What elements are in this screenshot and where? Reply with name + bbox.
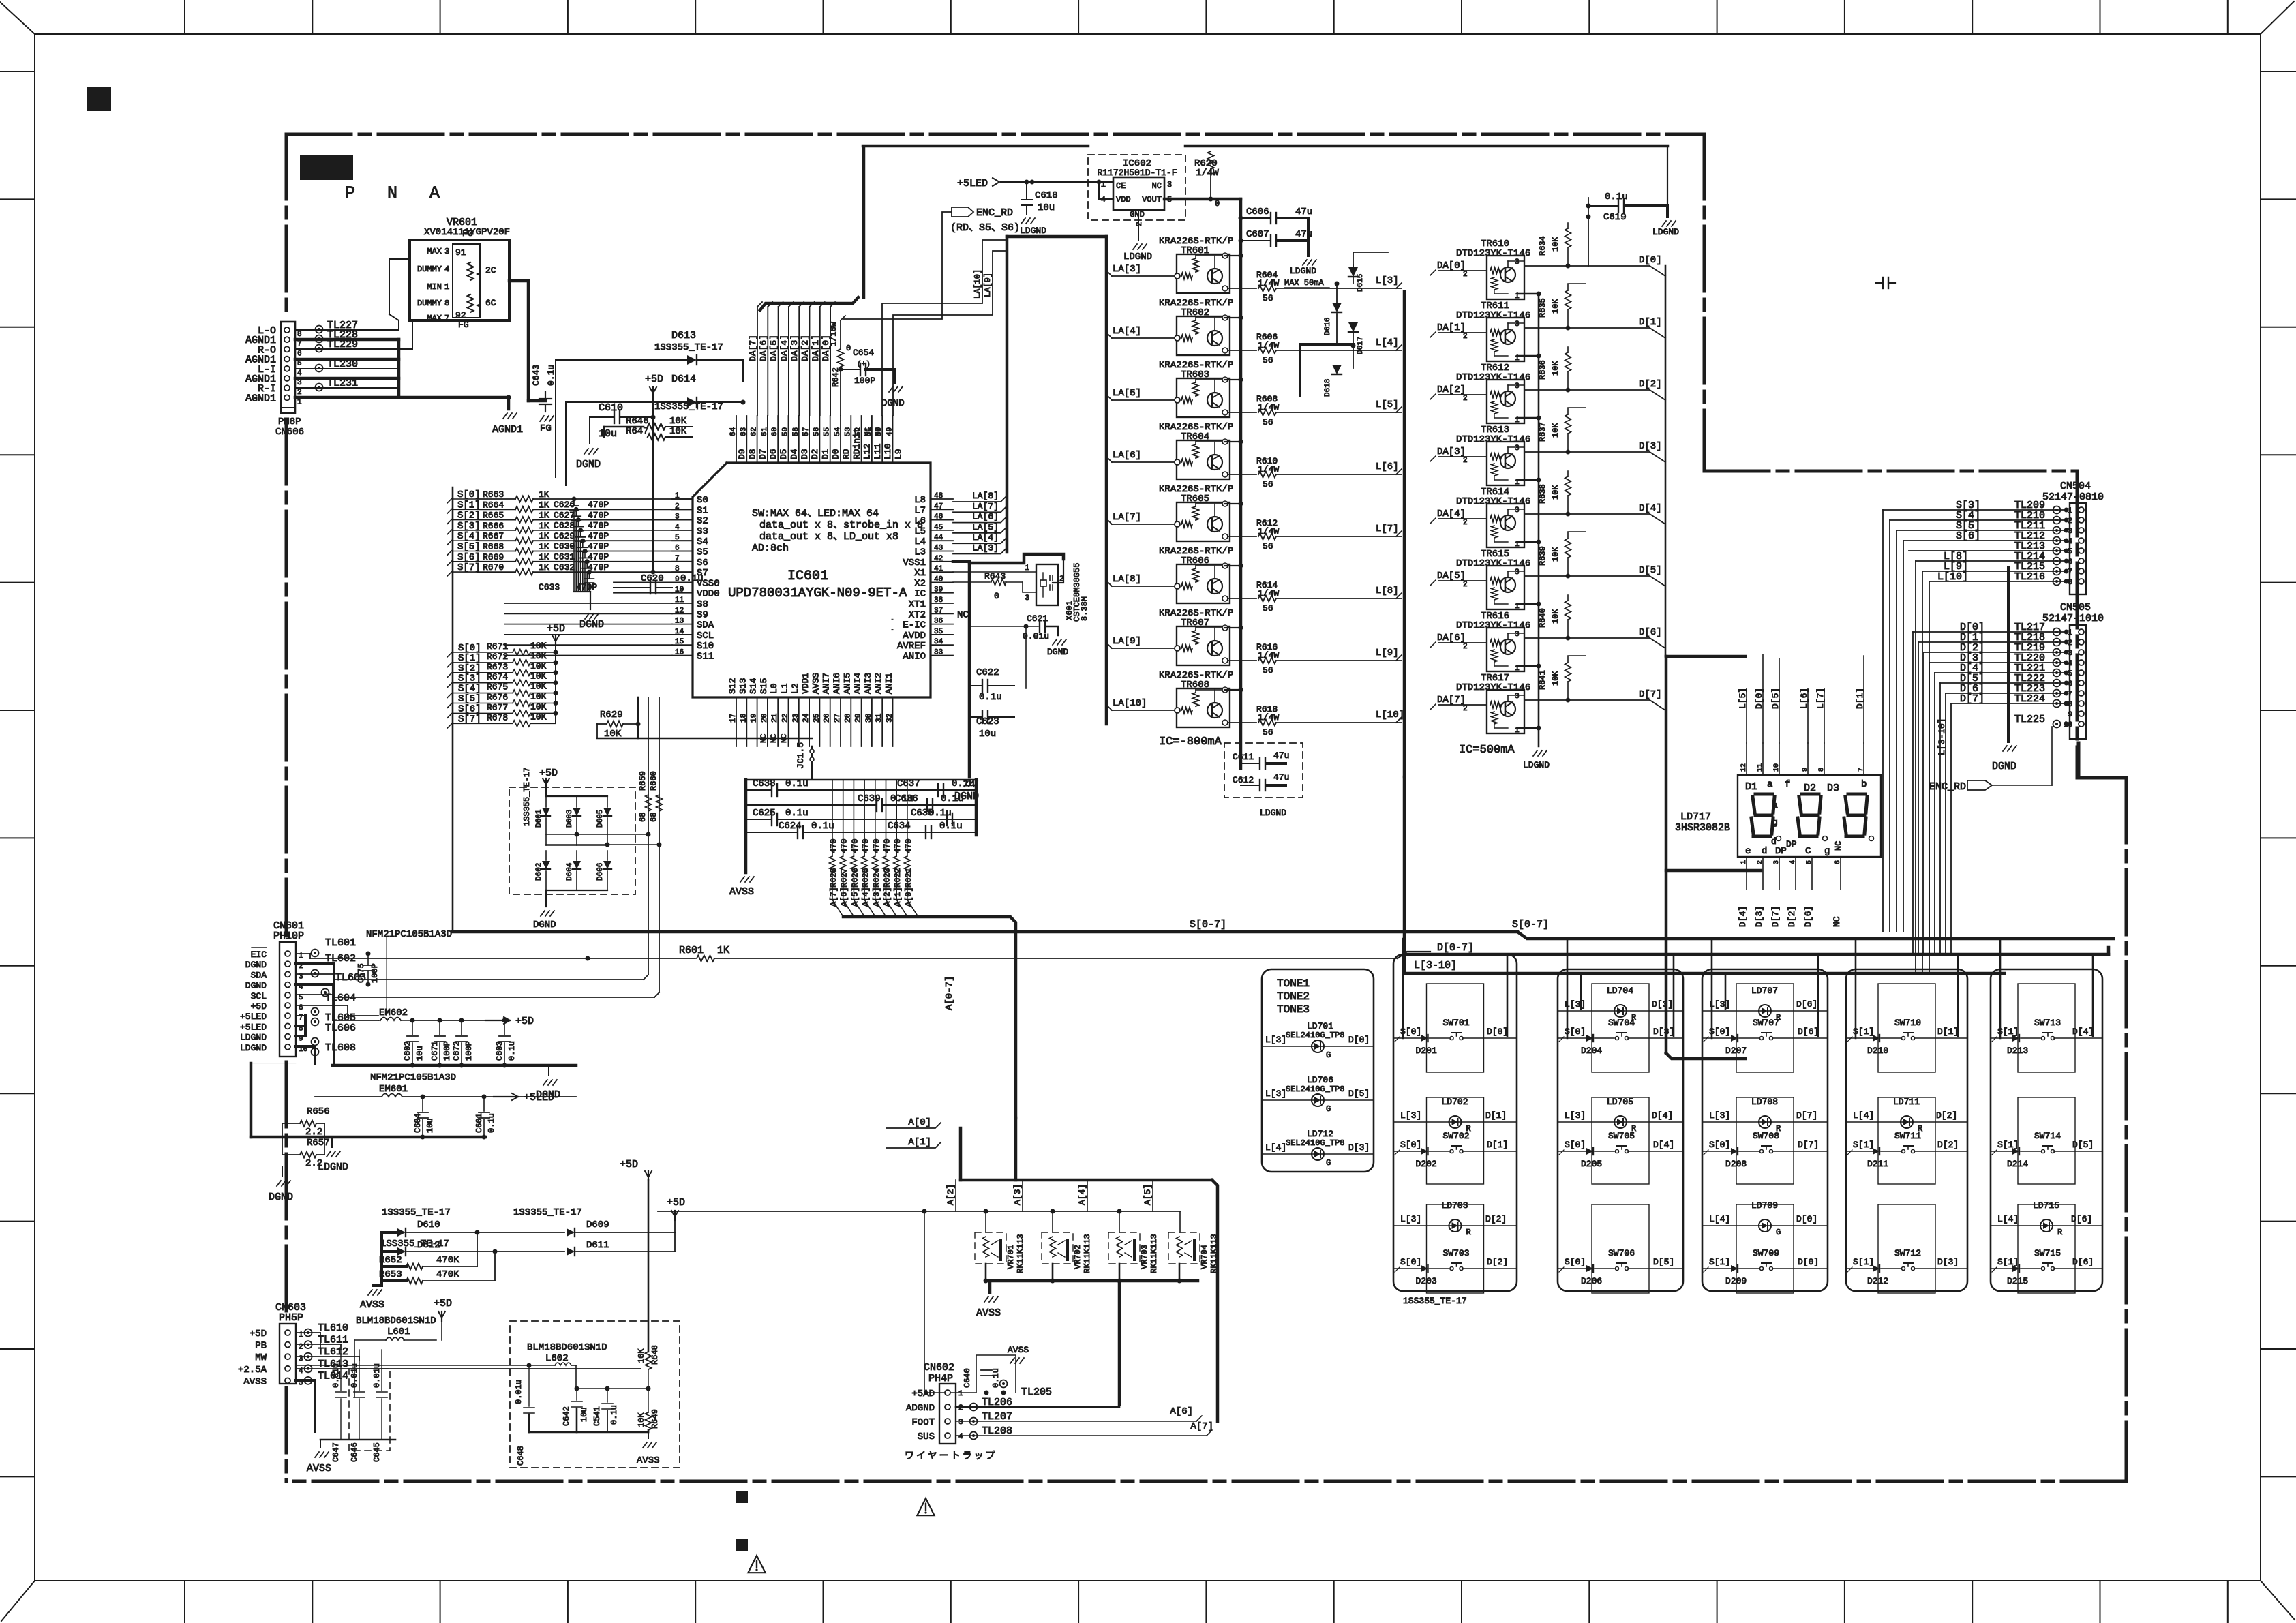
svg-text:7: 7: [2068, 691, 2072, 699]
svg-text:L[4]: L[4]: [1376, 337, 1399, 348]
svg-text:DA[6]: DA[6]: [758, 335, 768, 361]
svg-text:S[6]: S[6]: [1956, 530, 1980, 542]
svg-text:C619: C619: [1603, 212, 1627, 223]
svg-text:SW709: SW709: [1753, 1248, 1779, 1258]
svg-text:21: 21: [771, 713, 779, 723]
svg-text:D[2]: D[2]: [1787, 906, 1797, 927]
svg-text:24: 24: [802, 713, 811, 723]
svg-text:3: 3: [1025, 594, 1029, 603]
svg-text:DUMMY: DUMMY: [417, 264, 442, 274]
svg-text:D[4]: D[4]: [1639, 503, 1662, 514]
svg-text:DTD123YK-T146: DTD123YK-T146: [1456, 434, 1530, 445]
svg-text:18: 18: [740, 714, 748, 723]
svg-text:VDD: VDD: [1116, 195, 1131, 204]
svg-text:D[7]: D[7]: [1796, 1110, 1817, 1121]
svg-text:A[6]: A[6]: [840, 887, 849, 907]
svg-text:D213: D213: [2007, 1046, 2028, 1056]
svg-text:D606: D606: [596, 863, 605, 881]
svg-text:D[0]: D[0]: [1798, 1257, 1819, 1267]
svg-text:1SS355_TE-17: 1SS355_TE-17: [382, 1207, 451, 1218]
svg-text:0.1u: 0.1u: [487, 1113, 496, 1133]
svg-text:2: 2: [1136, 222, 1144, 226]
svg-text:DTD123YK-T146: DTD123YK-T146: [1456, 248, 1530, 259]
svg-text:NFM21PC105B1A3D: NFM21PC105B1A3D: [370, 1072, 456, 1083]
svg-text:9: 9: [1802, 768, 1809, 772]
svg-text:3: 3: [1515, 568, 1520, 577]
svg-text:TL610: TL610: [318, 1322, 348, 1334]
svg-text:D8: D8: [747, 449, 757, 459]
svg-text:R628: R628: [829, 868, 839, 888]
svg-text:56: 56: [1263, 665, 1273, 676]
svg-text:D609: D609: [586, 1219, 609, 1230]
svg-text:8: 8: [444, 299, 449, 308]
svg-text:DA[7]: DA[7]: [1437, 695, 1466, 706]
svg-text:S14: S14: [749, 678, 759, 694]
svg-text:SW702: SW702: [1443, 1131, 1470, 1141]
svg-text:S[0-7]: S[0-7]: [1190, 919, 1226, 930]
svg-text:2: 2: [1463, 271, 1468, 279]
svg-text:IC: IC: [914, 589, 926, 600]
svg-text:LD701: LD701: [1307, 1021, 1333, 1031]
svg-text:1SS355_TE-17: 1SS355_TE-17: [380, 1239, 449, 1249]
svg-text:LA[4]: LA[4]: [972, 532, 999, 543]
svg-text:NC: NC: [1152, 181, 1162, 191]
svg-text:DUMMY: DUMMY: [417, 299, 442, 308]
svg-text:0.1u: 0.1u: [811, 821, 834, 832]
svg-text:DA[5]: DA[5]: [1437, 571, 1466, 581]
svg-text:13: 13: [675, 618, 684, 626]
svg-text:27: 27: [834, 714, 842, 723]
svg-text:S8: S8: [697, 599, 708, 610]
svg-text:2: 2: [297, 389, 302, 397]
svg-text:3: 3: [1515, 693, 1520, 701]
svg-text:LD717: LD717: [1680, 811, 1711, 823]
svg-text:ANI3: ANI3: [863, 673, 873, 694]
svg-text:data_out x 8、strobe_in x 8: data_out x 8、strobe_in x 8: [759, 519, 923, 531]
svg-text:C640: C640: [963, 1368, 972, 1388]
svg-text:SEL2410G_TP8: SEL2410G_TP8: [1286, 1084, 1344, 1094]
svg-text:CE: CE: [1116, 181, 1126, 191]
svg-text:0: 0: [1215, 199, 1220, 209]
svg-text:A[0-7]: A[0-7]: [944, 976, 955, 1010]
svg-text:10u: 10u: [1038, 202, 1055, 213]
svg-text:10u: 10u: [425, 1118, 435, 1133]
svg-text:9: 9: [2068, 711, 2072, 719]
svg-text:D208: D208: [1725, 1159, 1747, 1169]
svg-text:LA[6]: LA[6]: [972, 512, 999, 522]
svg-text:10K: 10K: [530, 701, 547, 712]
svg-text:DTD123YK-T146: DTD123YK-T146: [1456, 682, 1530, 693]
svg-text:3: 3: [1515, 258, 1520, 267]
svg-text:R666: R666: [483, 521, 504, 531]
svg-text:S11: S11: [697, 652, 714, 663]
svg-text:D[7]: D[7]: [1770, 906, 1781, 927]
svg-text:D210: D210: [1867, 1046, 1888, 1056]
svg-text:CN504: CN504: [2060, 481, 2091, 492]
svg-text:3: 3: [2068, 650, 2072, 658]
svg-text:A[2]: A[2]: [946, 1184, 956, 1205]
svg-text:1K: 1K: [539, 489, 549, 500]
svg-text:D[1]: D[1]: [1487, 1140, 1508, 1150]
svg-text:100P: 100P: [442, 1041, 452, 1061]
svg-text:30: 30: [865, 714, 873, 723]
svg-text:R659: R659: [638, 771, 648, 791]
svg-text:DGND: DGND: [245, 981, 267, 991]
svg-text:C632: C632: [554, 562, 575, 573]
svg-text:2C: 2C: [485, 265, 496, 275]
svg-text:10: 10: [1773, 763, 1781, 772]
svg-text:58: 58: [792, 427, 800, 436]
svg-text:VR701: VR701: [1006, 1245, 1016, 1269]
svg-text:D6: D6: [768, 449, 779, 459]
svg-text:SW707: SW707: [1753, 1018, 1779, 1028]
svg-text:R667: R667: [483, 531, 504, 541]
svg-text:470P: 470P: [576, 582, 597, 592]
svg-text:2: 2: [1463, 519, 1468, 527]
svg-text:SCL: SCL: [697, 631, 714, 641]
svg-text:LD704: LD704: [1607, 986, 1633, 996]
svg-text:G: G: [1326, 1050, 1331, 1060]
svg-text:TONE1: TONE1: [1277, 977, 1310, 990]
svg-text:56: 56: [1263, 293, 1273, 303]
svg-text:0: 0: [846, 344, 851, 353]
svg-text:D[4]: D[4]: [1652, 1110, 1673, 1121]
svg-text:L6: L6: [914, 516, 926, 527]
svg-text:LD709: LD709: [1751, 1200, 1778, 1211]
svg-text:A[7]: A[7]: [1190, 1421, 1213, 1432]
svg-text:D618: D618: [1324, 379, 1332, 397]
svg-text:470P: 470P: [588, 531, 609, 541]
svg-text:C646: C646: [350, 1442, 359, 1462]
svg-text:470: 470: [861, 838, 871, 853]
svg-text:DA[7]: DA[7]: [748, 335, 758, 361]
svg-text:DGND: DGND: [533, 920, 556, 930]
svg-text:R622: R622: [893, 868, 903, 888]
svg-text:D4: D4: [789, 449, 800, 459]
svg-text:IC=500mA: IC=500mA: [1459, 744, 1515, 757]
svg-text:LD705: LD705: [1607, 1097, 1633, 1107]
svg-text:49: 49: [886, 427, 894, 436]
svg-text:15: 15: [675, 638, 684, 646]
svg-text:CN505: CN505: [2060, 602, 2091, 613]
svg-text:D[2]: D[2]: [1936, 1110, 1957, 1121]
svg-text:R668: R668: [483, 542, 504, 552]
svg-text:g: g: [1772, 817, 1778, 828]
svg-text:61: 61: [761, 427, 769, 436]
svg-text:3: 3: [2068, 528, 2072, 536]
svg-text:D[7]: D[7]: [1960, 693, 1984, 705]
svg-text:b: b: [1861, 779, 1867, 790]
svg-text:X1: X1: [914, 568, 926, 579]
svg-text:VDD1: VDD1: [800, 673, 811, 694]
svg-text:1SS355_TE-17: 1SS355_TE-17: [522, 768, 532, 826]
svg-text:59: 59: [782, 427, 790, 436]
svg-text:C601: C601: [474, 1113, 484, 1133]
svg-text:DGND: DGND: [269, 1192, 293, 1203]
svg-text:47u: 47u: [1273, 750, 1289, 761]
svg-text:A[3]: A[3]: [1012, 1184, 1023, 1205]
svg-text:6: 6: [2068, 558, 2072, 566]
svg-text:CN602: CN602: [924, 1362, 954, 1374]
svg-text:DP: DP: [1775, 846, 1787, 857]
svg-text:LA[7]: LA[7]: [1113, 512, 1141, 523]
svg-text:64: 64: [729, 427, 738, 436]
svg-text:LA[3]: LA[3]: [972, 543, 999, 553]
svg-text:+2.5A: +2.5A: [238, 1365, 267, 1376]
svg-text:S[0]: S[0]: [1400, 1140, 1421, 1150]
svg-text:D202: D202: [1416, 1159, 1437, 1169]
svg-text:L[3]: L[3]: [1265, 1035, 1286, 1045]
svg-text:DA[4]: DA[4]: [779, 335, 789, 361]
svg-text:R647: R647: [626, 426, 649, 437]
svg-text:data_out x 8、LD_out x8: data_out x 8、LD_out x8: [759, 531, 898, 543]
svg-text:IC601: IC601: [787, 568, 828, 584]
svg-text:C612: C612: [1233, 775, 1254, 785]
svg-text:UPD780031AYGK-N09-9ET-A: UPD780031AYGK-N09-9ET-A: [728, 586, 907, 601]
svg-text:60: 60: [771, 427, 779, 436]
svg-text:S10: S10: [697, 641, 714, 652]
svg-text:+5LED: +5LED: [957, 178, 988, 189]
svg-text:D1: D1: [1745, 781, 1757, 793]
svg-text:1: 1: [297, 398, 302, 406]
svg-text:S6: S6: [697, 558, 708, 568]
svg-text:46: 46: [934, 513, 943, 521]
svg-text:3: 3: [1515, 631, 1520, 639]
svg-text:R624: R624: [872, 868, 881, 888]
svg-text:470: 470: [883, 838, 892, 853]
svg-text:6C: 6C: [485, 298, 496, 308]
svg-text:1: 1: [444, 282, 449, 292]
svg-text:LDGND: LDGND: [240, 1033, 267, 1043]
svg-text:JC1.5: JC1.5: [796, 742, 806, 769]
svg-text:470P: 470P: [588, 510, 609, 520]
svg-text:VR704: VR704: [1200, 1245, 1209, 1269]
svg-text:D[2]: D[2]: [1639, 379, 1662, 390]
svg-text:4: 4: [444, 264, 449, 274]
svg-text:PH5P: PH5P: [279, 1312, 303, 1324]
svg-text:3: 3: [297, 379, 302, 387]
svg-text:R626: R626: [850, 868, 860, 888]
svg-text:D616: D616: [1324, 318, 1332, 335]
svg-text:L4: L4: [914, 536, 926, 547]
svg-text:DA[3]: DA[3]: [1437, 446, 1466, 457]
svg-text:0.01u: 0.01u: [372, 1363, 382, 1388]
svg-text:S0: S0: [697, 495, 708, 506]
svg-text:+5D: +5D: [667, 1197, 685, 1209]
svg-text:R629: R629: [600, 710, 623, 721]
svg-text:57: 57: [802, 427, 811, 436]
svg-text:4: 4: [2068, 660, 2072, 668]
svg-text:DGND: DGND: [1992, 761, 2016, 772]
svg-text:3: 3: [958, 1419, 963, 1427]
svg-text:D212: D212: [1867, 1276, 1888, 1286]
svg-text:L1: L1: [780, 683, 790, 694]
svg-text:0.01u: 0.01u: [350, 1363, 359, 1388]
svg-text:470K: 470K: [436, 1269, 459, 1280]
svg-text:10u: 10u: [599, 428, 617, 440]
svg-text:R678: R678: [487, 712, 508, 723]
svg-text:470P: 470P: [588, 541, 609, 551]
svg-text:C654: C654: [853, 348, 874, 358]
svg-text:R627: R627: [840, 868, 849, 888]
svg-text:0.1u: 0.1u: [939, 821, 963, 832]
svg-text:C648: C648: [516, 1446, 526, 1466]
svg-text:D602: D602: [535, 863, 543, 881]
svg-text:D[4]: D[4]: [2072, 1027, 2094, 1037]
svg-text:2.2: 2.2: [305, 1158, 322, 1169]
svg-text:62: 62: [751, 427, 759, 436]
svg-text:54: 54: [834, 427, 842, 436]
svg-text:L[4]: L[4]: [1853, 1110, 1874, 1121]
svg-text:C645: C645: [372, 1442, 382, 1462]
svg-text:1SS355_TE-17: 1SS355_TE-17: [513, 1207, 582, 1218]
svg-text:ENC_RD: ENC_RD: [976, 207, 1013, 219]
svg-text:NC: NC: [1832, 916, 1842, 927]
svg-text:XT1: XT1: [909, 599, 926, 610]
svg-text:4: 4: [1789, 860, 1797, 864]
svg-text:(+): (+): [857, 361, 871, 369]
svg-text:D203: D203: [1416, 1276, 1437, 1286]
svg-text:9: 9: [675, 575, 680, 583]
svg-text:R657: R657: [307, 1138, 330, 1149]
svg-text:10K: 10K: [669, 426, 687, 437]
svg-text:D604: D604: [566, 862, 574, 881]
svg-text:34: 34: [934, 638, 943, 646]
svg-text:10K: 10K: [530, 641, 547, 651]
svg-text:C672: C672: [452, 1041, 462, 1061]
svg-text:DA[2]: DA[2]: [800, 335, 811, 361]
svg-text:SW711: SW711: [1894, 1131, 1921, 1141]
svg-text:NFM21PC105B1A3D: NFM21PC105B1A3D: [366, 929, 452, 940]
svg-text:R656: R656: [307, 1106, 330, 1117]
svg-text:S5: S5: [697, 547, 708, 558]
svg-text:D0: D0: [831, 449, 841, 459]
svg-text:R621: R621: [904, 868, 913, 888]
svg-text:26: 26: [824, 714, 832, 723]
svg-text:NC: NC: [864, 427, 873, 436]
svg-text:1K: 1K: [539, 562, 549, 573]
svg-text:43: 43: [934, 545, 943, 553]
svg-text:D206: D206: [1581, 1276, 1602, 1286]
svg-text:SW710: SW710: [1894, 1018, 1921, 1028]
svg-text:L[7]: L[7]: [1376, 524, 1399, 534]
svg-text:7: 7: [297, 340, 302, 348]
svg-text:55: 55: [824, 427, 832, 436]
svg-text:2: 2: [2068, 517, 2072, 526]
svg-text:10K: 10K: [530, 671, 547, 682]
svg-text:D[6]: D[6]: [1796, 999, 1817, 1010]
svg-text:D205: D205: [1581, 1159, 1602, 1169]
svg-text:52147-1010: 52147-1010: [2042, 613, 2104, 624]
svg-text:R671: R671: [487, 641, 508, 652]
svg-text:S[0]: S[0]: [1709, 1140, 1730, 1150]
svg-text:11: 11: [675, 596, 684, 605]
svg-text:12: 12: [1740, 763, 1748, 772]
svg-text:TL205: TL205: [1021, 1386, 1052, 1398]
svg-text:SW715: SW715: [2034, 1248, 2061, 1258]
svg-text:R: R: [2057, 1228, 2062, 1237]
svg-text:DA[6]: DA[6]: [1437, 633, 1466, 643]
svg-text:PH8P: PH8P: [278, 416, 301, 427]
svg-text:0.1u: 0.1u: [546, 365, 556, 386]
svg-text:47: 47: [934, 502, 943, 511]
svg-text:LD702: LD702: [1442, 1097, 1468, 1107]
svg-text:10K: 10K: [530, 661, 547, 671]
svg-text:1K: 1K: [539, 531, 549, 541]
svg-text:52: 52: [855, 427, 863, 436]
svg-text:DTD123YK-T146: DTD123YK-T146: [1456, 372, 1530, 383]
svg-text:D3: D3: [1827, 783, 1839, 794]
svg-text:D[7]: D[7]: [1798, 1140, 1819, 1150]
svg-text:D[4]: D[4]: [1738, 906, 1748, 927]
svg-text:1: 1: [958, 1390, 963, 1398]
svg-text:100P: 100P: [370, 963, 380, 983]
svg-text:EM602: EM602: [379, 1007, 408, 1018]
svg-text:36: 36: [934, 618, 943, 626]
svg-text:1SS355_TE-17: 1SS355_TE-17: [654, 342, 723, 353]
svg-text:56: 56: [1263, 727, 1273, 738]
svg-text:2: 2: [1463, 457, 1468, 465]
svg-text:7: 7: [444, 314, 449, 323]
svg-text:R623: R623: [883, 868, 892, 888]
svg-text:D[2]: D[2]: [1487, 1257, 1508, 1267]
svg-text:56: 56: [813, 427, 821, 436]
svg-text:+5D: +5D: [251, 1001, 267, 1012]
svg-text:RK11K113: RK11K113: [1149, 1234, 1159, 1273]
svg-text:2: 2: [1463, 705, 1468, 713]
svg-text:DTD123YK-T146: DTD123YK-T146: [1456, 620, 1530, 631]
svg-text:10K: 10K: [1551, 237, 1560, 252]
svg-text:25: 25: [813, 714, 821, 723]
svg-text:4: 4: [675, 524, 680, 532]
svg-text:A[1]: A[1]: [893, 887, 903, 907]
svg-text:12: 12: [675, 607, 684, 615]
svg-text:470P: 470P: [588, 521, 609, 531]
svg-text:1K: 1K: [539, 500, 549, 510]
svg-text:VOUT: VOUT: [1142, 195, 1162, 204]
svg-text:+5D: +5D: [547, 623, 565, 635]
svg-text:DA[0]: DA[0]: [1437, 260, 1466, 271]
svg-text:2: 2: [1463, 395, 1468, 403]
svg-text:E-IC: E-IC: [903, 620, 926, 631]
svg-text:R674: R674: [487, 672, 508, 682]
svg-text:40: 40: [934, 575, 943, 583]
svg-text:17: 17: [729, 714, 738, 723]
svg-text:56: 56: [1263, 603, 1273, 613]
svg-text:SW704: SW704: [1608, 1018, 1635, 1028]
svg-text:D[0]: D[0]: [1796, 1214, 1817, 1224]
svg-text:ADGND: ADGND: [906, 1403, 935, 1414]
svg-text:LA[10]: LA[10]: [1113, 698, 1147, 709]
svg-text:D2: D2: [1804, 783, 1816, 794]
svg-text:D207: D207: [1725, 1046, 1747, 1056]
svg-text:SW708: SW708: [1753, 1131, 1779, 1141]
svg-text:D209: D209: [1725, 1276, 1747, 1286]
svg-text:CN606: CN606: [275, 427, 304, 438]
svg-text:LD708: LD708: [1751, 1097, 1778, 1107]
svg-text:44: 44: [934, 534, 943, 542]
svg-text:PB: PB: [255, 1341, 267, 1352]
svg-text:L[3-10]: L[3-10]: [1937, 718, 1947, 755]
svg-text:32: 32: [886, 714, 894, 723]
svg-text:MAX 50mA: MAX 50mA: [1284, 278, 1324, 288]
svg-text:L[3-10]: L[3-10]: [1414, 960, 1457, 971]
svg-text:D[3]: D[3]: [1348, 1142, 1370, 1153]
svg-text:ENC_RD: ENC_RD: [1929, 781, 1966, 793]
svg-text:39: 39: [934, 586, 943, 594]
svg-text:DGND: DGND: [576, 459, 601, 470]
svg-text:0.1u: 0.1u: [785, 778, 809, 789]
